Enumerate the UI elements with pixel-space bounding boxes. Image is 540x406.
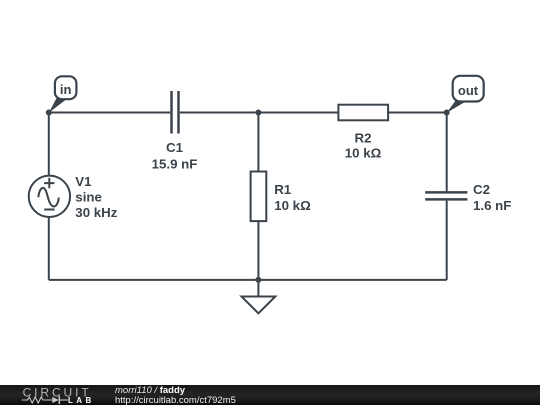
ground — [242, 297, 276, 314]
svg-text:R1: R1 — [274, 182, 292, 197]
footer attribution text — [115, 385, 185, 396]
CircuitLab logo — [20, 385, 96, 405]
capacitor C2 — [425, 192, 467, 199]
svg-text:10 kΩ: 10 kΩ — [345, 146, 382, 161]
node junction dot: ground — [255, 277, 261, 283]
wire top left: in node to C1 — [49, 112, 170, 114]
wire: C1 to R2 — [180, 112, 339, 114]
bottom rail wire — [49, 279, 447, 281]
svg-text:LAB: LAB — [68, 396, 95, 405]
C1 value label — [152, 140, 198, 171]
V1 value label — [75, 174, 117, 220]
ground stem wire — [257, 280, 259, 297]
svg-text:in: in — [60, 82, 72, 97]
node flag "out" tail — [447, 100, 466, 113]
wire: R1 down to bottom rail — [257, 221, 259, 280]
V1 sine symbol — [38, 188, 59, 207]
V1 minus sign — [44, 209, 54, 211]
wire: R2 to out node — [388, 112, 447, 114]
voltage source V1 — [29, 176, 70, 217]
R2 value label — [345, 130, 382, 160]
svg-text:15.9 nF: 15.9 nF — [152, 156, 198, 171]
node flag "in" — [55, 76, 77, 99]
svg-text:C1: C1 — [166, 140, 184, 155]
node flag "in" tail — [49, 98, 66, 113]
footer bar — [0, 385, 540, 405]
svg-text:R2: R2 — [355, 130, 372, 145]
V1 plus sign — [44, 178, 54, 188]
svg-text:30 kHz: 30 kHz — [75, 205, 117, 220]
wire: in node down to V1 — [48, 113, 50, 176]
node junction dot: C1/R1/R2 — [255, 110, 261, 116]
wire: out node down to C2 — [446, 113, 448, 192]
node junction dot: in — [46, 110, 52, 116]
node flag "out" — [453, 76, 484, 102]
R1 value label — [274, 182, 311, 213]
svg-text:C2: C2 — [473, 182, 490, 197]
svg-text:sine: sine — [75, 190, 102, 205]
C2 value label — [473, 182, 511, 213]
svg-text:out: out — [458, 83, 479, 98]
capacitor C1 — [172, 91, 179, 134]
svg-text:10 kΩ: 10 kΩ — [274, 198, 311, 213]
wire: C2 down to bottom rail — [446, 201, 448, 280]
svg-text:1.6 nF: 1.6 nF — [473, 198, 511, 213]
resistor R2 — [338, 105, 388, 121]
node junction dot: out — [444, 110, 450, 116]
wire: top node down to R1 — [257, 113, 259, 172]
wire: V1 down to bottom rail — [48, 217, 50, 280]
svg-text:V1: V1 — [75, 174, 92, 189]
resistor R1 — [251, 172, 267, 222]
